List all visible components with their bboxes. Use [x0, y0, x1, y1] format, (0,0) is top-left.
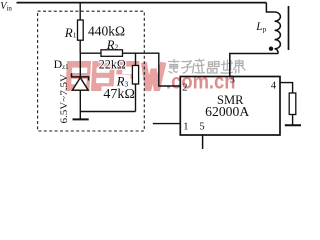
wire pin4 to load resistor — [280, 83, 293, 93]
dashed box around regulator network — [38, 11, 145, 131]
wire bottom rail zener to R3 — [80, 111, 135, 113]
svg-text:2: 2 — [182, 83, 187, 94]
svg-text:47kΩ: 47kΩ — [103, 86, 135, 101]
zener diode Dz1 — [72, 53, 89, 118]
resistor R1 — [78, 3, 84, 54]
svg-text:22kΩ: 22kΩ — [99, 58, 126, 72]
wire coil bottom to pin3 — [230, 54, 278, 77]
wire top rail Vin to transformer — [17, 2, 267, 4]
IC U1 SMR62000A — [180, 77, 280, 136]
watermark chinese characters 電子産品世界 — [169, 59, 246, 73]
transformer core bar — [288, 6, 290, 50]
svg-text:R1: R1 — [64, 25, 77, 40]
label white box 47k — [102, 86, 137, 99]
wire R2 to pin2 path — [123, 53, 181, 86]
terminal bar under R4 — [285, 124, 301, 126]
wire R1 bottom junction to R2 — [80, 52, 101, 54]
resistor R3 — [132, 53, 138, 111]
label white box Dz1 — [54, 59, 66, 69]
svg-text:3: 3 — [230, 75, 235, 86]
resistor R2 — [101, 50, 123, 57]
svg-text:5: 5 — [199, 122, 204, 133]
svg-text:Vin: Vin — [0, 1, 12, 13]
inductor Lp transformer primary — [266, 3, 280, 54]
svg-text:4: 4 — [271, 81, 277, 92]
svg-text:Dz1: Dz1 — [54, 57, 69, 71]
terminal bar under Dz1 — [73, 118, 89, 120]
label white box R3 — [115, 75, 131, 87]
svg-text:6.5V~7.5V: 6.5V~7.5V — [59, 73, 69, 123]
svg-text:R2: R2 — [106, 38, 119, 52]
svg-text:1: 1 — [183, 121, 188, 132]
polarity dot — [269, 47, 273, 51]
svg-text:.com.cn: .com.cn — [166, 69, 236, 93]
wire pin1 stub — [153, 123, 181, 125]
watermark EEPW logo — [65, 61, 163, 91]
wire pin5 down — [202, 135, 204, 149]
svg-text:Lp: Lp — [255, 21, 266, 33]
svg-text:62000A: 62000A — [205, 104, 249, 119]
resistor R4 load — [289, 93, 296, 125]
